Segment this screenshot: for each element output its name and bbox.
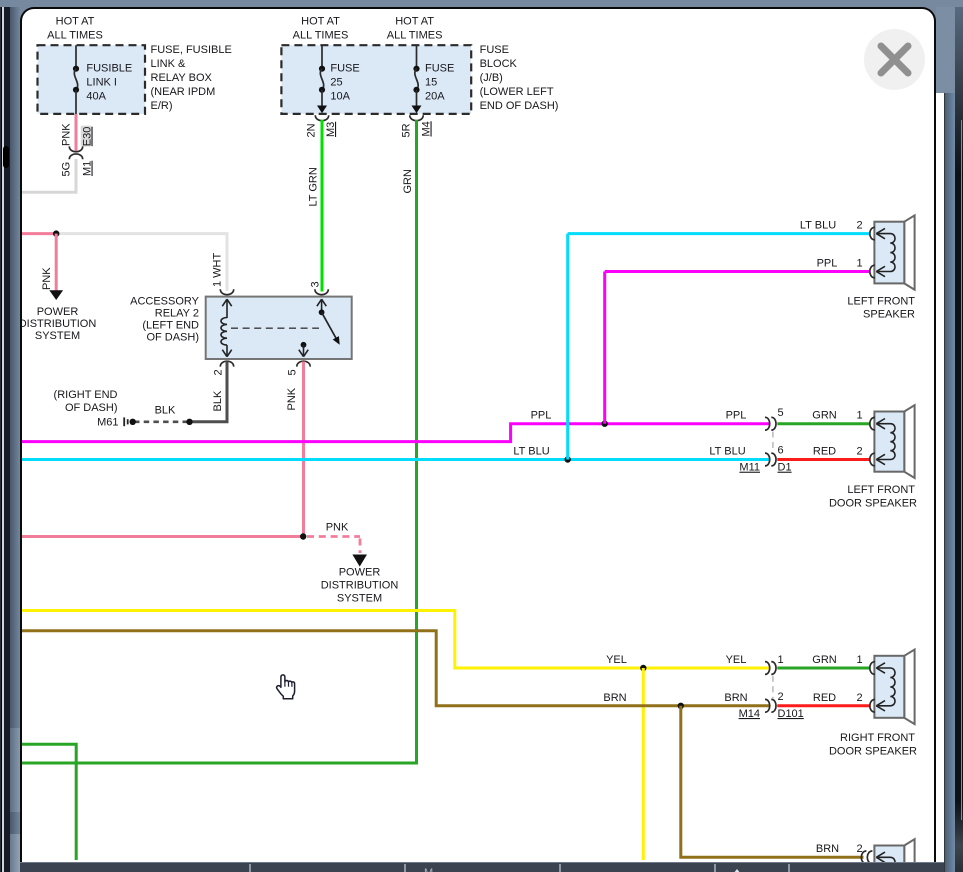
speaker bottom (clipped) <box>861 839 914 872</box>
svg-text:10A: 10A <box>330 91 350 103</box>
svg-text:BLK: BLK <box>155 405 176 417</box>
svg-text:25: 25 <box>330 77 342 89</box>
fuse 25 10A <box>317 45 360 113</box>
relay switch pins 3-5 <box>299 299 340 357</box>
close button <box>864 29 925 90</box>
svg-text:HOT AT: HOT AT <box>301 16 340 28</box>
svg-text:6: 6 <box>778 445 784 457</box>
svg-text:OF DASH): OF DASH) <box>146 332 199 344</box>
svg-text:RED: RED <box>813 692 836 704</box>
wire YEL from left edge to connector D101 <box>22 611 770 669</box>
wire YEL down to bottom <box>642 668 645 860</box>
svg-text:M61: M61 <box>97 417 118 429</box>
svg-text:HOT AT: HOT AT <box>395 16 434 28</box>
fuse 15 20A <box>412 45 455 113</box>
svg-text:ALL TIMES: ALL TIMES <box>47 30 103 42</box>
node PNK junction 2 <box>300 533 306 539</box>
svg-text:(RIGHT END: (RIGHT END <box>54 389 118 401</box>
svg-text:20A: 20A <box>425 91 445 103</box>
relay pin labels <box>212 281 322 411</box>
label power distribution system (left) <box>19 306 97 342</box>
svg-text:SYSTEM: SYSTEM <box>35 330 80 342</box>
connector M14/D101 <box>739 654 804 720</box>
svg-text:RELAY BOX: RELAY BOX <box>151 72 213 84</box>
fuse box 2 (fuse block J/B) <box>281 45 471 114</box>
svg-text:GRN: GRN <box>812 654 837 666</box>
svg-text:END OF DASH): END OF DASH) <box>480 100 559 112</box>
svg-text:PPL: PPL <box>817 258 838 270</box>
svg-text:YEL: YEL <box>606 654 627 666</box>
left side chrome <box>0 7 1 872</box>
svg-text:E30: E30 <box>82 127 94 147</box>
label HOT AT ALL TIMES (left) <box>47 16 103 42</box>
relay link dashed <box>231 327 319 329</box>
svg-text:YEL: YEL <box>726 654 747 666</box>
svg-text:LT GRN: LT GRN <box>308 167 320 206</box>
ground M61 <box>54 389 128 429</box>
mouse hand cursor <box>277 675 295 699</box>
wire GRN connector to right front door speaker <box>777 654 870 668</box>
node BRN junction <box>678 703 684 709</box>
wire RED connector to right front door speaker <box>777 692 870 706</box>
svg-text:POWER: POWER <box>37 306 79 318</box>
svg-text:FUSE, FUSIBLE: FUSE, FUSIBLE <box>151 44 232 56</box>
svg-text:LINK &: LINK & <box>151 58 187 70</box>
label fuse block name <box>480 44 559 112</box>
wire WHT node to relay pin1 <box>56 234 227 291</box>
svg-text:LINK I: LINK I <box>86 77 117 89</box>
label accessory relay 2 <box>130 296 200 344</box>
wire LT BLU from left edge to connector D1 <box>22 446 770 460</box>
connector M4 <box>401 115 433 137</box>
wire LT BLU up to left front speaker <box>568 220 870 460</box>
svg-text:1: 1 <box>856 258 862 270</box>
label power distribution system (mid) <box>321 567 399 605</box>
svg-text:5: 5 <box>287 369 299 375</box>
svg-text:(NEAR IPDM: (NEAR IPDM <box>151 86 216 98</box>
svg-text:D1: D1 <box>778 462 792 474</box>
svg-text:LT BLU: LT BLU <box>709 446 745 458</box>
svg-text:M3: M3 <box>325 122 337 137</box>
wire LT GRN fuse25 to relay pin3 <box>308 120 323 292</box>
svg-text:RIGHT FRONT: RIGHT FRONT <box>840 732 915 744</box>
svg-text:M1: M1 <box>82 161 94 176</box>
svg-text:BLK: BLK <box>212 390 224 411</box>
svg-text:2N: 2N <box>306 123 318 137</box>
svg-text:2: 2 <box>856 220 862 232</box>
svg-text:GRN: GRN <box>402 169 414 194</box>
svg-text:15: 15 <box>425 77 437 89</box>
svg-text:2: 2 <box>856 446 862 458</box>
svg-text:M14: M14 <box>739 708 760 720</box>
speaker left front <box>847 215 915 320</box>
svg-text:5R: 5R <box>401 123 413 137</box>
right side chrome <box>944 74 946 872</box>
connector M3 <box>306 115 338 137</box>
wire BRN down to left rear speaker <box>681 706 864 858</box>
svg-text:GRN: GRN <box>812 410 837 422</box>
svg-text:LT BLU: LT BLU <box>800 220 836 232</box>
svg-text:DOOR SPEAKER: DOOR SPEAKER <box>829 746 917 758</box>
node LT BLU junction <box>565 456 571 462</box>
svg-text:5: 5 <box>778 407 784 419</box>
fuse box 1 (fusible link box) <box>38 45 146 114</box>
svg-text:1: 1 <box>856 410 862 422</box>
svg-text:BRN: BRN <box>724 692 747 704</box>
svg-text:40A: 40A <box>86 91 106 103</box>
svg-text:D101: D101 <box>778 708 804 720</box>
svg-text:ALL TIMES: ALL TIMES <box>387 30 443 42</box>
svg-text:SPEAKER: SPEAKER <box>863 308 915 320</box>
svg-text:OF DASH): OF DASH) <box>65 402 118 414</box>
svg-text:LT BLU: LT BLU <box>513 446 549 458</box>
svg-text:HOT AT: HOT AT <box>56 16 95 28</box>
wire BRN from left edge to connector D101 <box>22 631 770 706</box>
svg-text:ACCESSORY: ACCESSORY <box>130 296 200 308</box>
node PNK junction <box>53 230 59 236</box>
wire PNK down to power distribution arrow <box>41 234 63 300</box>
svg-text:LEFT FRONT: LEFT FRONT <box>847 484 915 496</box>
svg-text:POWER: POWER <box>339 567 381 579</box>
wire PNK from fusible link <box>61 114 94 152</box>
svg-text:M11: M11 <box>739 462 760 474</box>
svg-text:BRN: BRN <box>816 843 839 855</box>
label HOT AT ALL TIMES (right) <box>387 16 443 42</box>
corner nook fillers <box>18 7 42 29</box>
wire PNK horizontal to node <box>22 232 56 235</box>
svg-text:PNK: PNK <box>41 267 53 290</box>
svg-text:PPL: PPL <box>531 410 552 422</box>
svg-text:2: 2 <box>778 691 784 703</box>
speaker left front door <box>829 405 917 509</box>
svg-text:LEFT FRONT: LEFT FRONT <box>847 295 915 307</box>
wire RED connector to left front door speaker <box>777 446 870 460</box>
svg-text:RED: RED <box>813 446 836 458</box>
svg-text:PNK: PNK <box>61 123 73 146</box>
wire PNK horizontal from left edge <box>22 535 303 538</box>
svg-text:DISTRIBUTION: DISTRIBUTION <box>321 580 399 592</box>
svg-text:2: 2 <box>856 692 862 704</box>
svg-text:1: 1 <box>856 654 862 666</box>
wire PNK relay pin5 down <box>302 362 305 537</box>
relay U1 accessory relay 2 <box>206 289 352 366</box>
svg-text:1 WHT: 1 WHT <box>212 253 224 288</box>
svg-text:BLOCK: BLOCK <box>480 58 518 70</box>
svg-text:E/R): E/R) <box>151 100 173 112</box>
wire LT GRN bottom left <box>22 744 76 860</box>
svg-text:PNK: PNK <box>286 387 298 410</box>
svg-text:DOOR SPEAKER: DOOR SPEAKER <box>829 498 917 510</box>
label fuse/relay box name <box>151 44 232 112</box>
svg-text:3: 3 <box>310 281 322 287</box>
svg-text:1: 1 <box>778 654 784 666</box>
connector M11/D1 <box>739 407 791 474</box>
svg-text:(LOWER LEFT: (LOWER LEFT <box>480 86 554 98</box>
wire PNK dashed to power distribution <box>307 522 367 567</box>
wire PPL up to left front speaker <box>605 258 870 424</box>
svg-text:FUSE: FUSE <box>480 44 509 56</box>
svg-text:FUSE: FUSE <box>330 63 359 75</box>
svg-text:RELAY 2: RELAY 2 <box>155 308 199 320</box>
svg-text:FUSE: FUSE <box>425 63 454 75</box>
wire GRN fuse15 down and to left edge <box>22 120 417 763</box>
svg-text:PPL: PPL <box>726 410 747 422</box>
svg-text:BRN: BRN <box>603 692 626 704</box>
svg-text:PNK: PNK <box>326 522 349 534</box>
bottom toolbar <box>8 862 944 872</box>
wire PPL from left edge to connector D1 <box>22 410 770 442</box>
relay coil <box>221 299 232 357</box>
wire GRN connector to left front door speaker <box>777 410 870 424</box>
fusible link I 40A <box>73 45 132 114</box>
svg-text:5G: 5G <box>61 162 73 177</box>
speaker right front door <box>829 650 917 758</box>
svg-text:2: 2 <box>213 369 225 375</box>
node PPL junction <box>602 421 608 427</box>
wire BLK relay pin2 to ground M61 <box>130 362 228 425</box>
node YEL junction <box>640 665 646 671</box>
svg-text:DISTRIBUTION: DISTRIBUTION <box>19 318 97 330</box>
top bar <box>0 0 963 7</box>
wire gray 5G to left edge <box>22 159 76 192</box>
svg-text:(J/B): (J/B) <box>480 72 503 84</box>
connector M1 inline <box>61 146 94 176</box>
svg-text:SYSTEM: SYSTEM <box>337 593 382 605</box>
svg-text:M4: M4 <box>421 121 433 136</box>
svg-text:ALL TIMES: ALL TIMES <box>293 30 349 42</box>
svg-text:FUSIBLE: FUSIBLE <box>86 63 132 75</box>
svg-text:(LEFT END: (LEFT END <box>142 320 199 332</box>
label HOT AT ALL TIMES (middle) <box>293 16 349 42</box>
